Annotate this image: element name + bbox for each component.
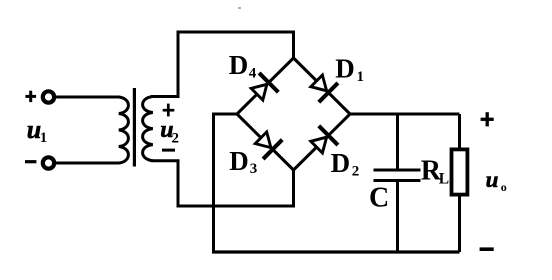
wire bridge bottom vertical: [292, 170, 295, 208]
wire bridge arm L-B: [237, 114, 294, 170]
wire capacitor branch top: [396, 114, 399, 170]
svg-text:u: u: [486, 167, 499, 192]
transformer core: [133, 88, 136, 167]
wire bottom rail: [212, 250, 460, 253]
wire primary top: [54, 96, 120, 99]
wire RL branch top: [458, 114, 461, 149]
svg-text:L: L: [439, 171, 449, 188]
wire left node to bottom rail: [214, 114, 238, 252]
minus sign u1: [25, 160, 36, 163]
wire primary bottom: [54, 162, 120, 165]
plus sign u2: [163, 104, 175, 117]
svg-text:C: C: [369, 183, 389, 214]
svg-text:2: 2: [172, 131, 180, 147]
speck: [238, 7, 241, 9]
svg-text:D: D: [229, 50, 249, 80]
svg-text:D: D: [335, 53, 355, 83]
transformer secondary winding: [143, 97, 153, 161]
wire capacitor branch bottom: [396, 182, 399, 253]
svg-text:3: 3: [250, 161, 257, 177]
svg-text:o: o: [501, 180, 507, 194]
svg-text:2: 2: [352, 163, 360, 179]
resistor RL: [452, 149, 468, 194]
wire secondary bottom: [151, 161, 294, 206]
wire top rail right: [350, 113, 460, 116]
svg-text:4: 4: [249, 65, 257, 81]
diode D3: [255, 132, 282, 159]
wire secondary top: [151, 32, 178, 97]
terminal - (primary bottom): [43, 157, 54, 168]
svg-text:1: 1: [357, 69, 365, 85]
plus sign output: [481, 112, 494, 126]
plus sign u1: [25, 91, 36, 102]
minus sign output: [480, 247, 494, 251]
wire bridge arm L-T: [237, 58, 294, 114]
diode D2: [311, 126, 338, 153]
svg-text:1: 1: [40, 130, 48, 146]
svg-text:D: D: [331, 148, 351, 178]
svg-text:D: D: [229, 146, 249, 176]
minus sign u2: [162, 149, 175, 152]
wire top rail: [177, 32, 294, 58]
capacitor C: [374, 170, 421, 181]
wire bridge arm T-R: [294, 58, 351, 114]
diode D1: [311, 75, 338, 102]
wire RL branch bottom: [458, 197, 461, 253]
terminal + (primary top): [43, 91, 54, 102]
wire bridge arm B-R: [294, 114, 351, 170]
transformer primary winding: [119, 97, 129, 163]
diode D4: [251, 73, 278, 100]
